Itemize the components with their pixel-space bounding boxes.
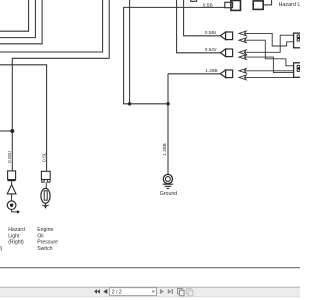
connector oil pressure switch: [41, 171, 50, 182]
joint arrow B2 and wire: [239, 38, 294, 66]
label hazard light right: [8, 227, 25, 246]
wire 0.5B row to hazard unit connector: [124, 7, 225, 103]
svg-text:0.5Gr: 0.5Gr: [205, 47, 217, 53]
wire ground trunk 1.25B: [167, 74, 169, 175]
wire corner 4: [0, 0, 103, 52]
terminal row B: [220, 32, 232, 40]
wire connector to switch: [45, 182, 47, 188]
connector hazard light: [8, 171, 16, 181]
wire row D 1.25B: [168, 73, 220, 75]
svg-text:(Right): (Right): [8, 240, 24, 246]
node junction black wires: [128, 103, 131, 106]
svg-text:Ground: Ground: [160, 191, 177, 197]
toolbar first page button: [94, 289, 100, 294]
switch ground mark: [42, 203, 48, 209]
hazard lamp triangle: [7, 185, 16, 194]
toolbar page number box: [110, 288, 157, 296]
toolbar background: [0, 287, 300, 297]
wire row B 0.5Br: [184, 0, 221, 36]
wire to engine oil pressure switch: [0, 65, 47, 171]
svg-text:0.5B: 0.5B: [203, 2, 213, 8]
toolbar clipboard icon: [186, 288, 193, 295]
connector pair row A: [225, 1, 241, 11]
wire harness corner 1 (top left): [0, 0, 29, 31]
wire row C 0.5Gr: [177, 0, 221, 53]
svg-text:0.5Br: 0.5Br: [205, 30, 217, 36]
svg-text:1.25B: 1.25B: [205, 68, 218, 74]
wire to hazard light right: [12, 0, 109, 171]
svg-text:0.5Gr: 0.5Gr: [7, 150, 13, 163]
label engine oil pressure switch: [37, 227, 58, 252]
wire 0.5B vertical from top: [129, 0, 131, 104]
wire connector to lamp triangle: [11, 181, 13, 184]
connector to hazard unit: [253, 0, 271, 9]
wire triangle to bulb: [11, 194, 13, 201]
svg-text:l): l): [0, 246, 3, 252]
svg-text:Switch: Switch: [37, 246, 52, 252]
wire stub left: [0, 130, 12, 132]
connector box right lower: [294, 63, 302, 78]
toolbar snapshot icon: [178, 288, 185, 295]
joint arrow D1 and wire: [239, 68, 294, 73]
joint arrow B1 and wire: [239, 31, 294, 46]
toolbar previous page button: [103, 289, 107, 294]
node junction ground trunk: [167, 103, 170, 106]
hazard light bulb: [7, 201, 16, 210]
joint arrow C2 and wire: [239, 55, 294, 73]
ground symbol: [163, 174, 174, 188]
terminal row C: [220, 49, 232, 57]
svg-text:2 / 2: 2 / 2: [112, 290, 122, 296]
toolbar next page button: [160, 289, 164, 294]
connector remnant top edge: [191, 0, 197, 1]
joint arrow C1 and wire: [239, 35, 294, 55]
svg-text:Pressure: Pressure: [37, 240, 58, 246]
joint arrow D2 and wire: [239, 75, 294, 80]
svg-text:1.25B: 1.25B: [162, 143, 168, 156]
page bottom edge line: [0, 267, 300, 269]
svg-text:Engine: Engine: [37, 227, 53, 233]
wire bulb elbow arrow: [12, 210, 21, 214]
toolbar last page button: [168, 289, 173, 294]
node junction stub: [11, 129, 14, 132]
connector box right upper: [294, 33, 302, 48]
oil pressure switch body: [41, 188, 50, 203]
terminal row D: [220, 70, 232, 78]
svg-text:Light: Light: [8, 233, 20, 239]
svg-text:Oil: Oil: [37, 233, 43, 239]
svg-text:0.5L: 0.5L: [42, 152, 48, 162]
wire harness corner 2: [0, 0, 35, 38]
wire harness corner 3: [0, 0, 42, 44]
svg-text:Hazard: Hazard: [8, 227, 25, 233]
svg-text:Hazard Un: Hazard Un: [279, 2, 301, 8]
